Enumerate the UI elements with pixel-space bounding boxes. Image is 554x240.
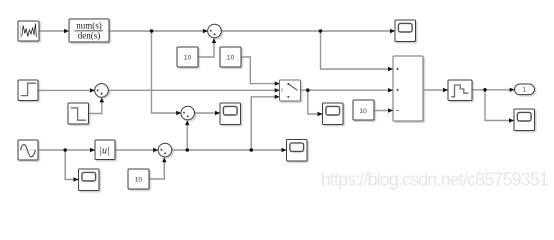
svg-text:num(s): num(s) xyxy=(76,20,102,30)
svg-text:|u|: |u| xyxy=(99,145,110,156)
svg-text:10: 10 xyxy=(135,176,143,183)
svg-text:10: 10 xyxy=(227,54,235,61)
svg-text:https://blog.csdn.net/c8575935: https://blog.csdn.net/c85759351 xyxy=(321,170,549,190)
svg-text:10: 10 xyxy=(184,54,192,61)
svg-text:10: 10 xyxy=(360,108,368,115)
svg-text:den(s): den(s) xyxy=(78,30,101,40)
svg-text:1: 1 xyxy=(523,87,527,94)
